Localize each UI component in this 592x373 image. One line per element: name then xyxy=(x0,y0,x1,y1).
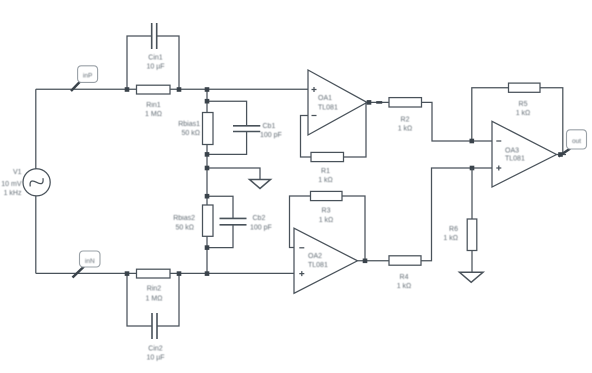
svg-text:R5: R5 xyxy=(519,101,528,108)
wire OA3 output xyxy=(557,154,567,156)
label V1 value xyxy=(1,169,22,197)
svg-text:10 µF: 10 µF xyxy=(146,355,164,362)
svg-text:R2: R2 xyxy=(401,117,410,124)
resistor R3 xyxy=(311,191,343,223)
wire R1 to OA1 output xyxy=(344,102,367,157)
wire R3 to OA2 output xyxy=(342,196,365,261)
capacitor Cb2 xyxy=(207,196,272,247)
node dot xyxy=(205,194,210,199)
resistor Rin2 xyxy=(137,269,171,302)
node dot xyxy=(205,271,210,276)
wire OA1 output xyxy=(367,101,389,103)
node dot xyxy=(205,99,210,104)
svg-text:V1: V1 xyxy=(13,169,22,176)
svg-text:100 pF: 100 pF xyxy=(260,132,282,139)
node dot xyxy=(470,139,475,144)
wire V1 top lead xyxy=(35,89,37,169)
svg-text:10 µF: 10 µF xyxy=(146,64,164,71)
resistor Rin1 xyxy=(137,85,171,118)
svg-text:1 kΩ: 1 kΩ xyxy=(397,283,412,290)
voltage source V1 xyxy=(23,169,50,196)
svg-text:Cb1: Cb1 xyxy=(263,123,276,130)
ground xyxy=(460,272,484,282)
svg-text:Rin1: Rin1 xyxy=(146,102,161,109)
svg-text:Rin2: Rin2 xyxy=(147,286,162,293)
svg-text:OA1: OA1 xyxy=(318,95,332,102)
svg-text:R1: R1 xyxy=(321,168,330,175)
svg-text:R6: R6 xyxy=(449,226,458,233)
capacitor Cin1 xyxy=(127,23,179,90)
svg-text:OA3: OA3 xyxy=(505,147,519,154)
svg-text:R3: R3 xyxy=(322,208,331,215)
svg-text:TL081: TL081 xyxy=(505,155,525,162)
wire V1 bottom lead xyxy=(35,196,37,274)
svg-text:1 kΩ: 1 kΩ xyxy=(443,235,458,242)
svg-text:50 kΩ: 50 kΩ xyxy=(176,224,194,231)
svg-text:Cin2: Cin2 xyxy=(148,346,163,353)
node dot xyxy=(363,259,368,264)
wire OA2 output xyxy=(358,260,390,262)
resistor R6 xyxy=(443,168,476,272)
node dot xyxy=(177,271,182,276)
svg-text:1 kΩ: 1 kΩ xyxy=(516,110,531,117)
node out flag xyxy=(559,130,587,157)
resistor Rbias1 xyxy=(178,113,213,145)
svg-text:inP: inP xyxy=(83,73,92,80)
svg-text:OA2: OA2 xyxy=(308,253,322,260)
wire R4 to OA3 non-inverting input xyxy=(421,168,492,261)
svg-text:1 kΩ: 1 kΩ xyxy=(319,217,334,224)
node dot xyxy=(125,271,130,276)
wire OA1 feedback xyxy=(301,116,312,158)
resistor R5 xyxy=(509,83,541,117)
wire R5 to OA3 output xyxy=(540,88,563,155)
svg-text:out: out xyxy=(572,138,581,145)
svg-text:Rbias2: Rbias2 xyxy=(173,215,195,222)
svg-text:TL081: TL081 xyxy=(308,262,328,269)
svg-text:100 pF: 100 pF xyxy=(250,224,272,231)
node dot xyxy=(125,87,130,92)
svg-text:50 kΩ: 50 kΩ xyxy=(182,130,200,137)
resistor R1 xyxy=(311,152,344,184)
svg-text:R4: R4 xyxy=(400,274,409,281)
wire OA3 feedback up xyxy=(472,88,509,141)
resistor R2 xyxy=(389,98,422,133)
resistor Rbias2 xyxy=(173,205,213,236)
node dot xyxy=(177,87,182,92)
svg-text:inN: inN xyxy=(85,258,95,265)
ground xyxy=(250,180,271,189)
capacitor Cin2 xyxy=(127,274,179,362)
svg-text:1 kΩ: 1 kΩ xyxy=(318,177,333,184)
node dot xyxy=(558,152,563,157)
pin nub xyxy=(376,101,382,104)
svg-text:Rbias1: Rbias1 xyxy=(178,121,200,128)
svg-text:1 MΩ: 1 MΩ xyxy=(146,296,163,303)
op-amp OA3 xyxy=(492,121,557,187)
node dot xyxy=(205,87,210,92)
wire bias chain xyxy=(206,90,208,274)
wire OA2 feedback xyxy=(290,196,311,248)
svg-text:1 MΩ: 1 MΩ xyxy=(145,111,162,118)
node dot xyxy=(205,152,210,157)
wire top rail xyxy=(36,88,308,90)
svg-text:10 mV: 10 mV xyxy=(1,181,22,188)
node inP flag xyxy=(71,66,98,91)
capacitor Cb1 xyxy=(207,101,282,154)
resistor R4 xyxy=(389,256,421,290)
op-amp OA2 xyxy=(294,228,358,293)
svg-text:Cin1: Cin1 xyxy=(148,55,163,62)
svg-text:TL081: TL081 xyxy=(318,104,338,111)
op-amp OA1 xyxy=(308,70,367,135)
node inN flag xyxy=(73,251,101,278)
node dot xyxy=(205,166,210,171)
node dot xyxy=(470,166,475,171)
wire ground tap xyxy=(207,168,260,180)
node dot xyxy=(367,100,372,105)
wire R2 to OA3 inverting input xyxy=(422,102,493,141)
wire bottom rail xyxy=(36,272,294,274)
svg-text:1 kHz: 1 kHz xyxy=(4,190,22,197)
svg-text:Cb2: Cb2 xyxy=(253,215,266,222)
node dot xyxy=(205,245,210,250)
svg-text:1 kΩ: 1 kΩ xyxy=(398,126,413,133)
